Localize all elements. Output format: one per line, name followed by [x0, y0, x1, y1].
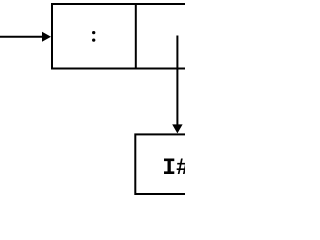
svg-text:I#: I#: [162, 155, 185, 181]
